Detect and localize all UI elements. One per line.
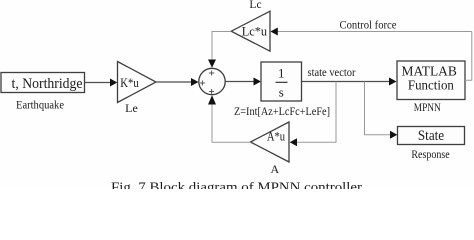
block: t, Northridge (earthquake input) <box>1 73 85 93</box>
svg-text:Response: Response <box>411 147 449 161</box>
svg-text:s: s <box>279 85 284 100</box>
block State (scope) <box>398 127 465 145</box>
svg-text:MATLAB: MATLAB <box>402 64 457 79</box>
block MATLAB Function (MPNN) <box>397 61 465 100</box>
svg-text:Fig. 7 Block diagram of MPNN c: Fig. 7 Block diagram of MPNN controller <box>111 181 362 190</box>
gain A (A*u triangle) <box>251 122 290 162</box>
wire: gain Lc to summing junction top <box>208 32 231 68</box>
wire: MATLAB Function output up to control-force line <box>465 32 472 81</box>
wire: earthquake block to gain Le <box>85 79 118 87</box>
svg-text:state vector: state vector <box>308 67 356 79</box>
svg-text:A*u: A*u <box>267 129 286 144</box>
wire branch: state vector down to State block <box>365 82 398 139</box>
wire: integrator to MATLAB Function <box>302 78 397 86</box>
wire: gain Le to summing junction <box>156 78 199 86</box>
svg-text:Earthquake: Earthquake <box>16 97 64 111</box>
summing junction <box>199 68 225 94</box>
svg-text:MPNN: MPNN <box>414 102 442 114</box>
wire: summing junction to integrator <box>225 78 261 86</box>
wire: gain A to summing junction bottom <box>208 95 251 142</box>
svg-text:K*u: K*u <box>120 75 139 90</box>
svg-text:A: A <box>270 162 279 176</box>
svg-text:Lc: Lc <box>249 0 261 11</box>
svg-text:Lc*u: Lc*u <box>242 23 268 38</box>
svg-text:Le: Le <box>125 101 138 115</box>
gain Le (K*u triangle) <box>118 62 157 103</box>
wire branch: state vector down to gain A <box>290 82 336 147</box>
gain Lc (Lc*u triangle) <box>231 11 270 51</box>
svg-text:Control force: Control force <box>340 18 397 32</box>
svg-text:State: State <box>418 128 444 144</box>
wire: control force line to gain Lc <box>270 28 471 36</box>
svg-text:t, Northridge: t, Northridge <box>12 76 83 92</box>
svg-text:Z=Int[Az+LcFc+LeFe]: Z=Int[Az+LcFc+LeFe] <box>234 104 330 118</box>
svg-text:1: 1 <box>278 66 285 81</box>
integrator 1/s <box>261 62 302 101</box>
svg-text:Function: Function <box>408 79 454 94</box>
